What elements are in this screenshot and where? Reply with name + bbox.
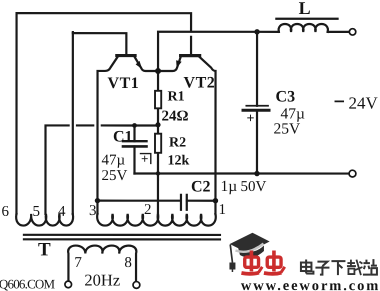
logo graduation cap edge highlight <box>235 244 263 252</box>
resistor R1 body <box>155 91 161 109</box>
arrowhead VT2 emitter <box>176 60 182 68</box>
svg-text:www.eeworm.com: www.eeworm.com <box>241 278 380 291</box>
logo character zai <box>347 260 363 276</box>
wire inner rail to VT1 base (terminal 4 column) <box>73 33 127 54</box>
svg-text:2: 2 <box>144 202 152 218</box>
svg-text:VT1: VT1 <box>108 75 140 92</box>
junction dot terminal 3 / C2 wire <box>95 198 100 203</box>
svg-text:20Hz: 20Hz <box>84 270 120 289</box>
svg-text:4: 4 <box>58 204 66 220</box>
transistor VT1 emitter to node <box>135 57 158 71</box>
junction dot terminal 1 / C2 wire <box>213 198 218 203</box>
inductor L overline <box>276 18 337 20</box>
capacitor C3 plates <box>246 105 268 107</box>
svg-text:6: 6 <box>1 204 9 220</box>
terminal circle 20Hz left <box>65 281 72 288</box>
wire node A to terminal 5 column <box>102 124 158 126</box>
svg-text:12k: 12k <box>167 153 189 168</box>
svg-text:VT2: VT2 <box>184 74 216 91</box>
transistor VT2 collector to terminal 1 column <box>200 57 216 214</box>
svg-text:5: 5 <box>32 204 40 220</box>
wire VT2 base lead lower segment <box>190 37 192 54</box>
junction dot common rail / C3 <box>254 171 259 176</box>
arrowhead VT1 emitter <box>136 61 142 69</box>
wire C3 bottom lead <box>256 110 258 173</box>
wire terminal 4 vertical <box>72 32 74 214</box>
junction dot L rail / C3 <box>254 29 259 34</box>
capacitor C1 polarity bracket <box>140 154 150 164</box>
junction dot node A <box>155 122 160 127</box>
capacitor C2 wire right <box>187 200 215 202</box>
logo character dian <box>301 260 314 274</box>
logo character xia <box>331 261 345 275</box>
junction dot C1 top <box>132 123 137 128</box>
capacitor C1 bottom lead <box>133 146 135 173</box>
svg-text:+: + <box>247 112 255 127</box>
logo graduation cap board <box>230 233 270 253</box>
logo character zhan <box>363 259 377 275</box>
svg-text:47µ: 47µ <box>101 152 125 168</box>
svg-text:3: 3 <box>89 203 97 219</box>
resistor R2 leads and terminal 2 column <box>157 125 159 133</box>
terminal circle output bottom <box>349 170 356 177</box>
svg-text:25V: 25V <box>274 121 302 138</box>
logo character chong 2 <box>264 251 285 274</box>
svg-text:7: 7 <box>74 255 82 271</box>
wire C3 top lead <box>256 32 258 106</box>
svg-text:R2: R2 <box>169 135 186 150</box>
svg-text:C1: C1 <box>113 128 133 145</box>
transformer T left winding <box>16 214 73 226</box>
wire top outer rail to VT2 base <box>16 13 191 214</box>
svg-text:24Ω: 24Ω <box>162 108 189 124</box>
inductor L coils <box>279 24 328 32</box>
svg-text:C2: C2 <box>191 179 211 196</box>
capacitor C2 plates <box>180 195 182 210</box>
transformer core lines <box>24 234 220 236</box>
svg-text:1: 1 <box>218 202 226 218</box>
terminal circle output top <box>349 29 355 35</box>
transistor VT1 collector to terminal 3 column <box>97 57 117 214</box>
svg-text:C3: C3 <box>276 89 296 106</box>
svg-text:Q606.COM: Q606.COM <box>0 276 56 291</box>
capacitor C1 top lead <box>133 125 135 141</box>
wire L to +terminal <box>328 31 350 33</box>
terminal circle 20Hz right <box>133 282 140 289</box>
capacitor C1 plates <box>123 140 147 142</box>
svg-text:+: + <box>141 151 148 166</box>
transformer 20Hz winding <box>68 246 136 282</box>
junction dot common rail / R2 column <box>156 171 160 175</box>
junction dot emitters node <box>155 68 161 74</box>
svg-text:24V: 24V <box>349 94 379 113</box>
svg-text:50V: 50V <box>240 179 266 195</box>
wire emitter node to L rail <box>158 32 279 70</box>
transistor VT2 base bar <box>181 54 200 57</box>
logo character zi <box>315 262 329 275</box>
svg-text:L: L <box>299 0 311 18</box>
transistor VT2 emitter to node <box>158 57 181 71</box>
label -24V <box>335 100 345 102</box>
resistor R2 body <box>155 134 161 153</box>
svg-text:8: 8 <box>124 255 132 271</box>
transistor VT1 base bar <box>117 54 135 57</box>
svg-text:25V: 25V <box>101 168 127 184</box>
capacitor C2 wire left <box>97 200 180 202</box>
logo character chong 1 <box>241 251 262 274</box>
resistor R1 leads <box>157 71 159 91</box>
logo graduation cap base crown <box>238 246 264 258</box>
svg-text:1µ: 1µ <box>220 178 237 195</box>
transformer T right winding <box>97 214 216 226</box>
svg-text:T: T <box>38 239 51 260</box>
logo graduation cap tassel <box>230 245 232 263</box>
svg-text:R1: R1 <box>168 89 185 104</box>
wire common rail to output terminal <box>134 172 348 174</box>
